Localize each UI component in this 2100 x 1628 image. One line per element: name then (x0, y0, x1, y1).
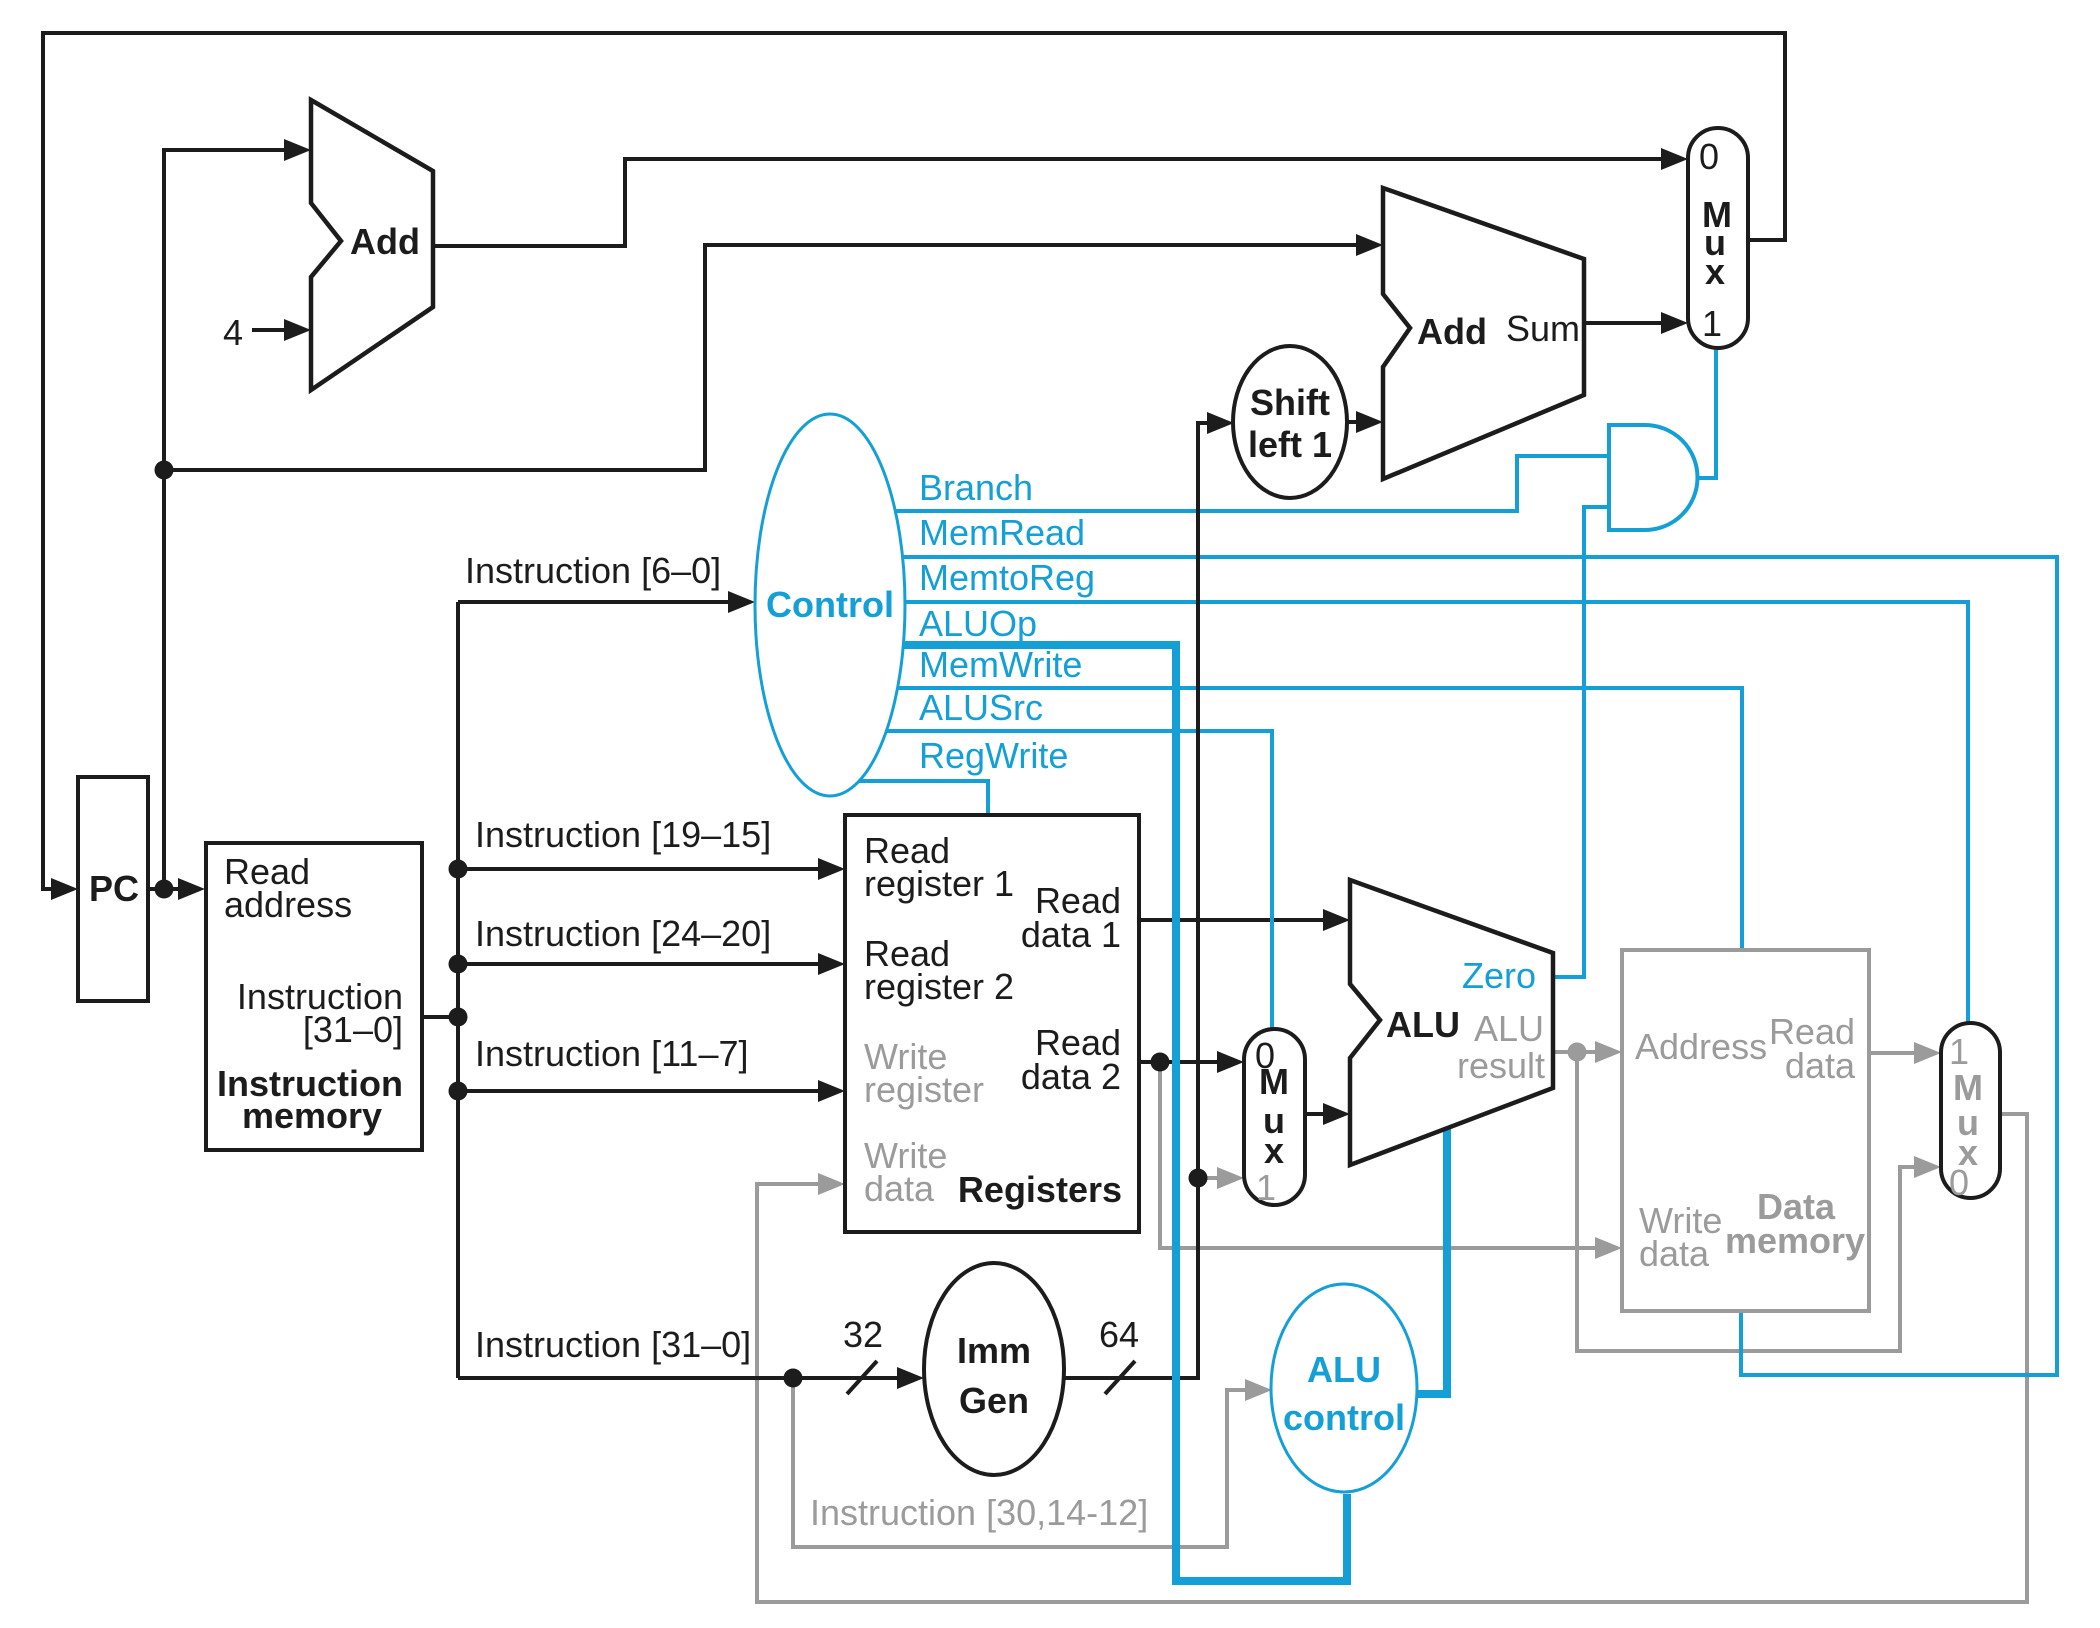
wire: ALU result bypass to right mux input 0 (inactive) (1577, 1052, 1941, 1351)
svg-text:Gen: Gen (959, 1380, 1029, 1421)
svg-text:result: result (1457, 1045, 1545, 1086)
svg-text:Instruction [19–15]: Instruction [19–15] (475, 814, 771, 855)
wire: Instruction [30,14-12] to ALU control (inactive) (793, 1378, 1272, 1547)
junction: immediate tap node (784, 1369, 803, 1388)
svg-text:control: control (1283, 1397, 1405, 1438)
wire: Instruction [19-15] to Read register 1 (458, 858, 845, 880)
svg-text:MemRead: MemRead (919, 512, 1085, 553)
mux: top PCsrc mux (1688, 128, 1748, 348)
svg-text:ALUOp: ALUOp (919, 603, 1037, 644)
svg-text:Add: Add (350, 221, 420, 262)
junction: bus tap instruction memory output (449, 1008, 468, 1027)
junction: bus tap Instruction[11-7] (449, 1082, 468, 1101)
svg-text:Control: Control (766, 584, 894, 625)
wire: right mux output write-back to Registers Write data (inactive) (757, 1114, 2027, 1602)
junction: PC output node (155, 880, 174, 899)
svg-text:[31–0]: [31–0] (303, 1009, 403, 1050)
junction: immediate to ALU mux tap (1189, 1169, 1208, 1188)
svg-text:Sum: Sum (1506, 308, 1580, 349)
svg-text:register 2: register 2 (864, 966, 1014, 1007)
wire: instruction memory output to instruction bus (422, 1015, 458, 1019)
junction: PC branch tap (155, 461, 174, 480)
register: PC (78, 777, 148, 1001)
wire: constant 4 into Add (252, 319, 311, 341)
svg-text:register: register (864, 1069, 984, 1110)
wire: Imm Gen output up to Shift left 1 (1064, 412, 1234, 1394)
wire: Zero flag to AND gate (1553, 507, 1607, 977)
wire: Read data 2 down to data memory Write data (inactive) (1160, 1062, 1622, 1259)
svg-text:data: data (1785, 1045, 1856, 1086)
svg-text:data: data (1639, 1233, 1710, 1274)
adder: Add (PC+4) (311, 100, 433, 390)
svg-text:Instruction [30,14-12]: Instruction [30,14-12] (810, 1492, 1148, 1533)
svg-text:1: 1 (1702, 303, 1722, 344)
svg-text:Instruction [11–7]: Instruction [11–7] (475, 1033, 749, 1074)
wire: PC output to instruction memory read address (148, 878, 205, 900)
memory: data memory (inactive) (1622, 950, 1869, 1311)
wire: Read data 1 to ALU input 1 (1139, 909, 1350, 931)
svg-text:Imm: Imm (957, 1330, 1031, 1371)
svg-text:M: M (1259, 1061, 1289, 1102)
wire: instruction bus vertical (456, 602, 460, 1378)
mux: MemtoReg mux (inactive outline black) (1941, 1023, 2000, 1198)
wire: ALU control output to ALU (thick) (1415, 1126, 1447, 1394)
shifter: Shift left 1 (1233, 346, 1347, 498)
svg-text:Registers: Registers (958, 1169, 1122, 1210)
svg-text:MemWrite: MemWrite (919, 644, 1082, 685)
wire: Instruction [6-0] to Control (458, 591, 755, 613)
svg-text:64: 64 (1099, 1314, 1139, 1355)
svg-text:Add: Add (1417, 311, 1487, 352)
gate: branch AND gate (1609, 425, 1698, 530)
wire: PC+4 mux output loop to PC input (43, 33, 1785, 900)
wire: AND gate output to top mux select (1697, 350, 1716, 478)
svg-text:32: 32 (843, 1314, 883, 1355)
svg-text:PC: PC (89, 868, 139, 909)
memory: instruction memory (206, 843, 422, 1150)
wire: Read data 2 to ALU mux input 0 (1139, 1051, 1244, 1073)
svg-text:Instruction [24–20]: Instruction [24–20] (475, 913, 771, 954)
wire: ALUOp control signal to ALU control (thick) (900, 645, 1347, 1581)
wire: data memory Read data to right mux input 1 (inactive) (1870, 1042, 1941, 1064)
svg-text:Instruction [6–0]: Instruction [6–0] (465, 550, 721, 591)
junction: ALU result node (1568, 1043, 1587, 1062)
junction: Read data 2 tap (1151, 1053, 1170, 1072)
svg-text:Instruction [31–0]: Instruction [31–0] (475, 1324, 751, 1365)
wire: PC value to branch Add top input (164, 234, 1383, 470)
svg-text:0: 0 (1699, 136, 1719, 177)
wire: ALUSrc control signal to ALU mux select (886, 731, 1272, 1031)
svg-text:address: address (224, 884, 352, 925)
wire: Instruction [31-0] to Imm Gen (458, 1361, 924, 1394)
control unit: ALU control ellipse (1271, 1284, 1417, 1492)
wire: MemtoReg control signal to right mux select (905, 602, 1968, 1025)
svg-text:RegWrite: RegWrite (919, 735, 1068, 776)
wire: Instruction [24-20] to Read register 2 (458, 953, 845, 975)
svg-text:MemtoReg: MemtoReg (919, 557, 1095, 598)
svg-text:x: x (1264, 1130, 1284, 1171)
ALU (1350, 880, 1553, 1165)
svg-text:ALU: ALU (1474, 1008, 1544, 1049)
svg-text:Zero: Zero (1462, 955, 1536, 996)
svg-text:Shift: Shift (1250, 382, 1330, 423)
register file: Registers (845, 815, 1139, 1232)
wire: PC output up to Add(PC+4) top input (164, 139, 311, 889)
junction: bus tap Instruction[24-20] (449, 955, 468, 974)
svg-text:Branch: Branch (919, 467, 1033, 508)
svg-text:data 2: data 2 (1021, 1056, 1121, 1097)
svg-text:data: data (864, 1168, 935, 1209)
wire: MemRead control signal to data memory (902, 557, 2057, 1375)
wire: Shift left 1 output to branch Add bottom input (1347, 411, 1383, 433)
svg-text:left 1: left 1 (1248, 424, 1332, 465)
immediate generator: Imm Gen (924, 1263, 1064, 1475)
wire: immediate to ALU mux input 1 (inactive) (1198, 1167, 1244, 1189)
svg-text:data 1: data 1 (1021, 914, 1121, 955)
svg-text:register 1: register 1 (864, 863, 1014, 904)
adder: Add (branch target) (1383, 188, 1584, 479)
wire: branch Add Sum output to top mux input 1 (1584, 312, 1688, 334)
svg-text:memory: memory (1725, 1220, 1865, 1261)
wire: ALU mux output to ALU input 2 (1305, 1103, 1350, 1125)
wire: Instruction [11-7] to Write register (458, 1080, 845, 1102)
mux: ALUSrc mux (1244, 1029, 1305, 1205)
svg-text:4: 4 (223, 312, 243, 353)
svg-text:ALUSrc: ALUSrc (919, 687, 1043, 728)
svg-text:1: 1 (1949, 1031, 1969, 1072)
svg-text:ALU: ALU (1307, 1349, 1381, 1390)
wire: MemWrite control signal to data memory (897, 688, 1742, 953)
wire: immediate bus vertical overdraw (black over control lines) (1196, 423, 1200, 1378)
svg-text:0: 0 (1949, 1162, 1969, 1203)
wire: RegWrite control signal to Registers (859, 781, 988, 817)
wire: ALU result to data memory Address (inactive) (1553, 1041, 1622, 1063)
svg-text:x: x (1705, 251, 1725, 292)
svg-text:memory: memory (242, 1095, 382, 1136)
wire: Branch control signal to AND gate (895, 456, 1607, 511)
wire: Add(PC+4) output to top mux input 0 (434, 148, 1688, 246)
svg-text:Address: Address (1635, 1026, 1767, 1067)
control unit: Control ellipse (755, 414, 905, 796)
svg-text:ALU: ALU (1386, 1004, 1460, 1045)
svg-text:1: 1 (1256, 1167, 1276, 1208)
junction: bus tap Instruction[19-15] (449, 860, 468, 879)
